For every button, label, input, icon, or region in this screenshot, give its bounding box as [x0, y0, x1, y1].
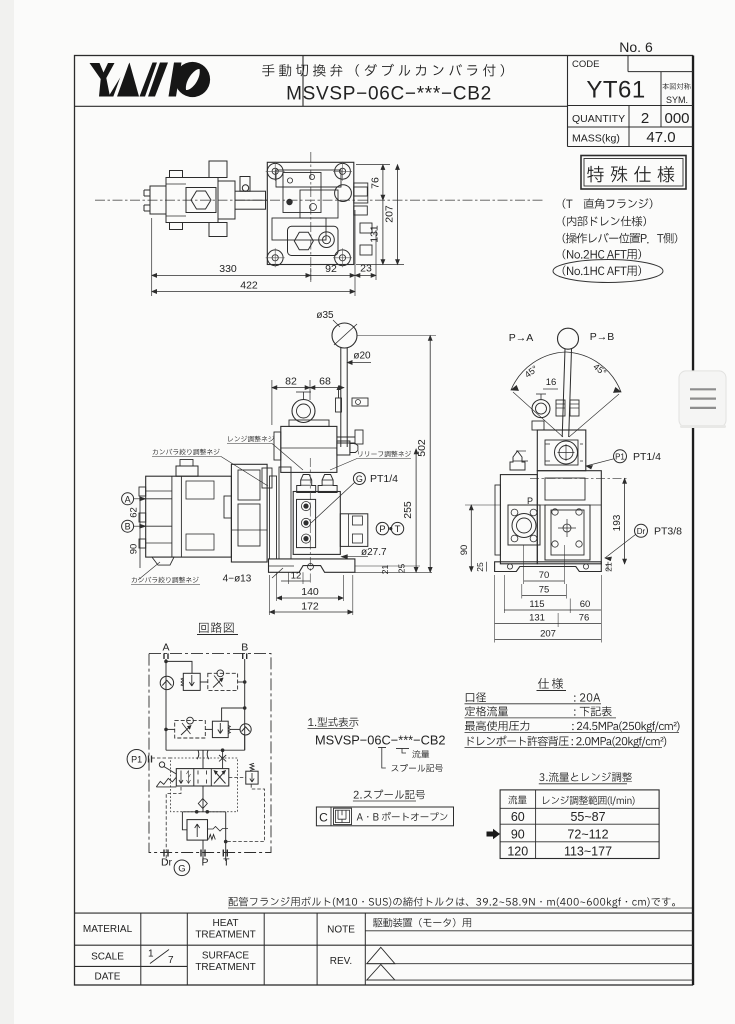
- title text japanese: [262, 64, 504, 77]
- svg-text:SURFACE: SURFACE: [202, 951, 250, 962]
- svg-text:72~112: 72~112: [567, 828, 608, 842]
- svg-text:MATERIAL: MATERIAL: [83, 924, 133, 935]
- title block grid: [75, 913, 694, 985]
- plan view: dimension 207: [384, 165, 400, 265]
- front view: kanbara block left: [139, 460, 231, 566]
- svg-text:131: 131: [529, 613, 545, 624]
- spec line 3: [465, 721, 680, 733]
- title block labels: [83, 918, 355, 983]
- scroll handle button overlay: [679, 371, 726, 428]
- side view: swing arc 45deg: [511, 352, 621, 437]
- front view: lever ball diameter label: [316, 310, 340, 327]
- funnel into valve P: [197, 750, 209, 768]
- svg-text:4−ø13: 4−ø13: [223, 574, 252, 585]
- scale value 1/7: [148, 949, 174, 967]
- port B label: [241, 642, 248, 660]
- front view: middle column blocks: [224, 464, 291, 562]
- front view: upper valve body: [274, 420, 363, 472]
- plan view: corner bolt bosses: [266, 162, 352, 267]
- wire B to RV2 row: [222, 708, 245, 721]
- svg-text:140: 140: [301, 586, 319, 598]
- svg-text:115: 115: [529, 599, 544, 610]
- side view: P1 PT1/4 callout: [586, 450, 661, 469]
- plan view: left port fitting: [144, 186, 166, 214]
- pilot wires dashed: [171, 758, 265, 842]
- wire collect bottom: [166, 735, 245, 750]
- side view: dimension 90 25 left: [459, 505, 500, 572]
- svg-text:PT1/4: PT1/4: [370, 473, 398, 485]
- svg-text:ø27.7: ø27.7: [361, 547, 387, 558]
- side view: port face right: [545, 505, 590, 560]
- svg-text:68: 68: [319, 376, 331, 388]
- svg-text:NOTE: NOTE: [327, 925, 355, 936]
- spec line 4: [465, 736, 667, 748]
- front view: lever shaft diameter label: [347, 351, 371, 365]
- svg-text:MSVSP−06C−***−CB2: MSVSP−06C−***−CB2: [315, 733, 446, 748]
- front view: handwheel knob: [292, 392, 315, 423]
- svg-text:P1: P1: [615, 453, 625, 462]
- front view: lever ball: [332, 323, 357, 348]
- svg-text:HEAT: HEAT: [213, 918, 239, 929]
- plan view: dimension 422: [152, 280, 355, 294]
- svg-text:60: 60: [511, 810, 525, 824]
- front view: dimension 172: [270, 575, 353, 615]
- svg-text:CODE: CODE: [572, 59, 599, 70]
- svg-text:75: 75: [539, 585, 550, 596]
- header cell lines: [75, 56, 568, 147]
- directional valve DV 4/3: [176, 769, 229, 786]
- svg-text:REV.: REV.: [330, 956, 352, 967]
- svg-text:A: A: [162, 642, 169, 654]
- svg-text:120: 120: [507, 845, 528, 859]
- spec line 1: [465, 692, 602, 704]
- code block: [568, 56, 694, 147]
- note text drive unit: [373, 918, 471, 927]
- spec line 2: [465, 706, 617, 718]
- wire A to relief RV1: [166, 661, 192, 673]
- svg-text:ø20: ø20: [353, 351, 371, 362]
- junction A second: [164, 728, 168, 732]
- model number title: [286, 84, 492, 105]
- svg-text:23: 23: [360, 263, 372, 275]
- svg-text:422: 422: [240, 280, 258, 292]
- side view: lower body left pump: [495, 475, 537, 564]
- circuit boundary dashed box: [149, 653, 271, 852]
- svg-text:QUANTITY: QUANTITY: [572, 113, 625, 125]
- front view: relief attach right: [337, 441, 358, 455]
- flow table: [500, 790, 659, 859]
- plan view: main valve body: [267, 162, 354, 264]
- front view: manifold centerline: [309, 458, 311, 583]
- plan view: vertical axis line: [310, 152, 312, 282]
- front view: bolt hole label 4-13: [223, 568, 283, 585]
- side view: base plate: [495, 562, 602, 572]
- front view: dimension 21 25 small: [355, 564, 432, 575]
- check valve CV1: [160, 676, 173, 689]
- revision triangle 2: [367, 965, 693, 981]
- port A label: [162, 642, 169, 660]
- flow control FC1: [208, 670, 238, 691]
- spec heading: [537, 678, 567, 691]
- svg-text:62: 62: [129, 507, 140, 518]
- relief valve RV3 pilot: [246, 763, 258, 784]
- front view: base plate: [269, 559, 355, 572]
- svg-text:207: 207: [540, 629, 556, 640]
- plan view: bottom dimensions 330 92 23: [152, 210, 376, 296]
- svg-text:90: 90: [129, 544, 140, 555]
- front view: P T circles: [376, 522, 404, 535]
- plan view: right flange tabs: [354, 187, 372, 255]
- flow table heading: [539, 772, 632, 784]
- svg-text:60: 60: [580, 599, 591, 610]
- side view: dimension 16: [543, 377, 558, 389]
- gauge point diamond: [198, 799, 207, 809]
- front view: dimension 82 68: [272, 376, 344, 426]
- side view: pivot center line: [530, 477, 628, 479]
- side view: lever shaft: [562, 349, 571, 437]
- svg-text:P→A: P→A: [509, 332, 534, 344]
- svg-text:193: 193: [612, 514, 623, 531]
- side view: bottom dimension stack: [495, 545, 602, 643]
- flow control FC2: [175, 717, 206, 738]
- svg-text:P→B: P→B: [590, 331, 615, 343]
- relief valve RV2: [212, 721, 230, 737]
- svg-text:TREATMENT: TREATMENT: [195, 962, 255, 973]
- port ticks bottom: [164, 850, 227, 857]
- wire A to FC2: [166, 728, 175, 730]
- plan view: dimension 76: [356, 165, 390, 201]
- svg-text:47.0: 47.0: [646, 129, 675, 146]
- junction B-branch: [243, 680, 247, 684]
- wire DV to bottom: [202, 786, 204, 812]
- svg-text:70: 70: [539, 570, 550, 581]
- svg-text:B: B: [125, 522, 131, 532]
- port labels Dr P T: [161, 857, 230, 869]
- spool code box: [316, 807, 453, 826]
- collector line above RV4: [182, 810, 225, 830]
- front view: adjusting screws pair: [297, 475, 337, 493]
- svg-text:92: 92: [325, 263, 337, 275]
- svg-text:131: 131: [369, 225, 381, 243]
- svg-text:7: 7: [168, 955, 174, 966]
- svg-text:25: 25: [397, 564, 407, 574]
- section 1 model designation heading: [308, 717, 359, 728]
- model number breakdown: [315, 733, 446, 773]
- front view: G PT1/4 callout: [311, 473, 398, 523]
- svg-text:90: 90: [459, 545, 470, 556]
- front view: callout renji adjusting screw: [227, 436, 303, 470]
- svg-text:B: B: [241, 642, 248, 654]
- front view: bottom dimension 12: [281, 571, 310, 585]
- svg-text:DATE: DATE: [95, 972, 121, 983]
- special specification box: [581, 156, 686, 190]
- svg-text:ø35: ø35: [316, 310, 334, 321]
- svg-text:172: 172: [301, 601, 319, 613]
- drawing frame: [75, 56, 694, 986]
- svg-text:T: T: [395, 524, 401, 535]
- plan view: small details upper body: [276, 174, 341, 210]
- svg-text:000: 000: [664, 110, 689, 127]
- front view: port A circle: [122, 493, 146, 505]
- svg-text:Dr: Dr: [637, 527, 646, 536]
- svg-text:G: G: [178, 864, 185, 875]
- svg-text:207: 207: [384, 205, 396, 223]
- YASIO logo: [90, 61, 211, 98]
- front view: dimension 90: [129, 526, 141, 568]
- svg-text:82: 82: [285, 376, 297, 388]
- wire B down: [244, 659, 246, 750]
- svg-text:255: 255: [402, 501, 414, 519]
- svg-text:113~177: 113~177: [564, 845, 612, 859]
- svg-text:A: A: [125, 494, 131, 504]
- orifice symbol on bypass branch: [219, 750, 226, 768]
- svg-text:SYM.: SYM.: [666, 95, 688, 105]
- svg-text:76: 76: [370, 177, 382, 189]
- front view: port B circle: [122, 520, 146, 532]
- plan view: connecting arm: [218, 177, 267, 220]
- front view: lever shaft: [341, 348, 347, 448]
- lever operator symbol: [156, 762, 176, 787]
- front view: small vent fitting: [336, 385, 369, 412]
- side view: Dr PT3/8 callout: [605, 524, 682, 560]
- pilot dashed line: [152, 757, 171, 759]
- check valve CV2: [240, 724, 251, 735]
- front view: callout kanbara screw lower: [131, 562, 200, 585]
- svg-text:MSVSP−06C−***−CB2: MSVSP−06C−***−CB2: [286, 84, 492, 105]
- svg-text:P: P: [379, 524, 385, 535]
- junction A-branch: [164, 660, 168, 664]
- circuit title kairozu: [197, 622, 238, 634]
- svg-text:55~87: 55~87: [570, 810, 605, 824]
- special notes list: [563, 198, 678, 275]
- P1 pilot port: [127, 750, 151, 769]
- plan view: lower sub body: [288, 226, 339, 255]
- torque note: [228, 897, 692, 908]
- wire RV1-FC1: [200, 681, 208, 683]
- svg-text:502: 502: [416, 439, 428, 457]
- relief valve RV4 main: [187, 820, 215, 841]
- plan view: side big port circle: [335, 183, 368, 203]
- front view: mid manifold block: [293, 492, 368, 555]
- svg-text:Dr: Dr: [161, 857, 173, 869]
- side view: adjust knob: [532, 394, 550, 418]
- junction B second: [243, 706, 247, 710]
- front view: dimension 502: [357, 336, 436, 573]
- junction bypass: [221, 748, 225, 752]
- side view: top hex fittings: [532, 400, 579, 430]
- svg-text:90: 90: [511, 828, 525, 842]
- svg-text:PT1/4: PT1/4: [633, 451, 661, 463]
- side view: lever ball: [558, 328, 579, 349]
- svg-text:1: 1: [148, 949, 154, 960]
- revision triangle 1: [367, 947, 693, 963]
- wire RV4 to P port: [202, 840, 204, 861]
- wire RV2 to CV2: [230, 728, 240, 730]
- front view: dia 27.7 label: [341, 547, 387, 559]
- front view: dimension 62: [129, 499, 141, 526]
- svg-text:12: 12: [291, 571, 302, 582]
- svg-text:330: 330: [219, 263, 237, 275]
- svg-text:21: 21: [380, 565, 390, 575]
- svg-text:T: T: [223, 857, 230, 869]
- svg-text:P: P: [201, 857, 208, 869]
- sheet number No.6: [619, 39, 653, 55]
- front view: dimension 255: [402, 449, 418, 572]
- front view: callout relief adjusting screw: [330, 451, 411, 470]
- wavy wire RV4 to T: [208, 812, 229, 861]
- side view: upper valve body: [537, 430, 586, 471]
- svg-text:YT61: YT61: [586, 77, 645, 104]
- svg-text:MASS(kg): MASS(kg): [572, 133, 620, 145]
- highlight oval around No.1HC: [553, 260, 663, 283]
- side view: dimension 193: [612, 478, 627, 564]
- relief valve RV1: [181, 673, 200, 690]
- wire A down: [165, 659, 167, 750]
- front view: callout kanbara screw upper: [152, 449, 268, 486]
- selection arrow 90 row: [487, 829, 501, 840]
- side view: kanbara valve on pump: [510, 451, 528, 470]
- plan view: kanbara block left: [166, 161, 227, 237]
- svg-text:TREATMENT: TREATMENT: [195, 930, 255, 941]
- svg-text:16: 16: [546, 377, 557, 388]
- svg-text:PT3/8: PT3/8: [654, 526, 682, 538]
- svg-text:No. 6: No. 6: [619, 39, 653, 55]
- svg-text:2: 2: [641, 110, 649, 127]
- svg-text:C: C: [319, 811, 328, 825]
- svg-text:25: 25: [475, 562, 485, 572]
- svg-text:21: 21: [604, 562, 614, 572]
- plan view: dimension 131: [356, 200, 404, 264]
- drain line Dr: [166, 787, 181, 861]
- front view: dimension 140: [277, 572, 344, 601]
- wire FC1 to B: [238, 681, 245, 683]
- side view: lower body main: [537, 471, 601, 564]
- wire FC2 to RV2: [205, 728, 212, 730]
- svg-text:SCALE: SCALE: [91, 952, 124, 963]
- plan view: center axis line: [95, 199, 545, 201]
- side view: swing labels P-A P-B: [509, 331, 615, 344]
- svg-text:P1: P1: [131, 755, 142, 765]
- svg-text:76: 76: [579, 613, 590, 624]
- svg-text:G: G: [356, 474, 363, 484]
- side view: dimension 21 right: [604, 562, 614, 572]
- side view: port face with bolts: [508, 505, 540, 545]
- front view: manifold bolts: [301, 502, 310, 544]
- port G circle: [174, 860, 190, 876]
- section 2 spool code heading: [353, 790, 425, 801]
